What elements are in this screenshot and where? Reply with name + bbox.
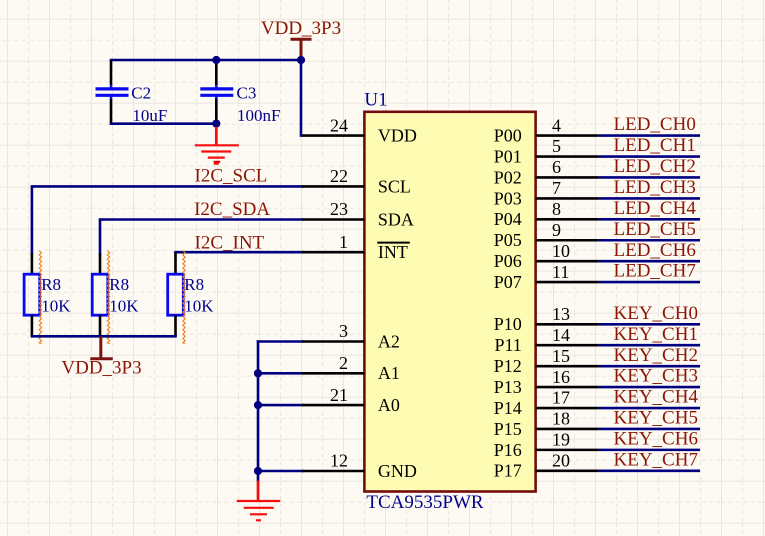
junction VDD branch (297, 56, 305, 64)
svg-text:LED_CH5: LED_CH5 (614, 219, 696, 240)
pin 15 P12 (right) (494, 346, 599, 376)
svg-text:10uF: 10uF (132, 106, 167, 125)
wire A1 (258, 372, 303, 375)
wire VDD drop (300, 60, 303, 136)
pin 3 A2 (left) (302, 321, 400, 351)
marker red dash above I2C_SCL (214, 161, 221, 163)
pin 1 INT (left) (302, 232, 410, 262)
svg-text:10K: 10K (109, 296, 139, 315)
resistor R8 (#3) (168, 251, 215, 344)
wire LED_CH6 (599, 260, 700, 263)
pin 20 P17 (right) (494, 451, 599, 481)
wire LED_CH7 (599, 281, 700, 284)
junction C3 bottom (212, 119, 220, 127)
pin 22 SCL (left) (302, 166, 411, 196)
svg-text:P07: P07 (494, 272, 522, 292)
svg-text:GND: GND (378, 461, 417, 481)
svg-text:P12: P12 (494, 356, 522, 376)
junction A1 (254, 369, 262, 377)
power symbol VDD_3P3 (top) (291, 39, 312, 60)
svg-text:P11: P11 (494, 335, 521, 355)
svg-text:11: 11 (552, 262, 569, 282)
svg-text:I2C_SDA: I2C_SDA (194, 199, 270, 220)
svg-text:I2C_INT: I2C_INT (195, 232, 265, 253)
svg-text:SCL: SCL (378, 176, 411, 196)
svg-text:KEY_CH5: KEY_CH5 (614, 408, 698, 429)
svg-text:22: 22 (330, 166, 348, 186)
svg-text:KEY_CH6: KEY_CH6 (614, 428, 698, 449)
svg-text:KEY_CH0: KEY_CH0 (614, 303, 698, 324)
wire cap bottom (111, 122, 216, 125)
svg-text:KEY_CH2: KEY_CH2 (614, 345, 698, 366)
svg-text:VDD_3P3: VDD_3P3 (261, 18, 341, 39)
svg-text:R8: R8 (109, 275, 129, 294)
svg-text:SDA: SDA (378, 209, 414, 229)
pin 21 A0 (left) (302, 385, 400, 415)
svg-text:6: 6 (552, 157, 561, 177)
svg-text:9: 9 (552, 220, 561, 240)
pin 5 P01 (right) (494, 136, 599, 166)
svg-text:VDD_3P3: VDD_3P3 (61, 358, 141, 379)
svg-text:C3: C3 (237, 84, 257, 103)
svg-text:LED_CH1: LED_CH1 (614, 135, 696, 156)
pin 7 P03 (right) (494, 178, 599, 208)
svg-text:KEY_CH4: KEY_CH4 (614, 387, 699, 408)
svg-text:18: 18 (552, 409, 570, 429)
svg-text:P06: P06 (494, 251, 522, 271)
svg-text:R8: R8 (41, 275, 61, 294)
svg-text:P05: P05 (494, 230, 522, 250)
pin 16 P13 (right) (494, 367, 599, 397)
svg-text:P13: P13 (494, 377, 522, 397)
svg-text:3: 3 (339, 321, 348, 341)
svg-text:P00: P00 (494, 126, 522, 146)
svg-text:10: 10 (552, 241, 570, 261)
svg-text:10K: 10K (41, 296, 71, 315)
wire KEY_CH3 (599, 386, 700, 389)
pin 23 SDA (left) (302, 199, 414, 229)
svg-text:5: 5 (552, 136, 561, 156)
svg-text:20: 20 (552, 451, 570, 471)
capacitor C3 (200, 60, 280, 125)
svg-text:KEY_CH7: KEY_CH7 (614, 449, 698, 470)
wire I2C_SCL (32, 186, 303, 253)
wire I2C_INT (176, 251, 303, 254)
wire LED_CH3 (599, 197, 700, 200)
svg-text:LED_CH0: LED_CH0 (614, 114, 696, 135)
svg-text:U1: U1 (364, 89, 387, 110)
IC U1 TCA9535PWR body (364, 112, 535, 492)
svg-text:15: 15 (552, 346, 570, 366)
wire GND pin12 (258, 470, 303, 473)
resistor R8 (#2) (92, 251, 139, 344)
svg-text:P10: P10 (494, 314, 522, 334)
svg-text:LED_CH7: LED_CH7 (614, 261, 696, 282)
wire LED_CH0 (599, 134, 700, 137)
svg-text:19: 19 (552, 430, 570, 450)
svg-text:C2: C2 (131, 84, 151, 103)
pin 9 P05 (right) (494, 220, 599, 250)
svg-text:A0: A0 (378, 395, 400, 415)
ground (under C3) (195, 127, 239, 164)
junction A0 (254, 401, 262, 409)
svg-text:23: 23 (330, 199, 348, 219)
wire LED_CH5 (599, 239, 700, 242)
wire A-column vertical (257, 342, 260, 481)
wire LED_CH2 (599, 176, 700, 179)
pin 24 VDD (left) (302, 115, 417, 145)
svg-text:KEY_CH3: KEY_CH3 (614, 366, 698, 387)
wire LED_CH1 (599, 155, 700, 158)
svg-text:24: 24 (330, 115, 348, 135)
pin 18 P15 (right) (494, 409, 599, 439)
svg-text:P16: P16 (494, 440, 522, 460)
wire resistor bottom rail (32, 335, 176, 338)
svg-text:P02: P02 (494, 167, 522, 187)
pin 2 A1 (left) (302, 353, 400, 383)
pin 14 P11 (right) (494, 325, 598, 355)
svg-text:LED_CH2: LED_CH2 (614, 156, 696, 177)
pin 19 P16 (right) (494, 430, 599, 460)
pin 8 P04 (right) (494, 199, 599, 229)
svg-text:P14: P14 (494, 398, 522, 418)
pin 6 P02 (right) (494, 157, 599, 187)
svg-text:LED_CH4: LED_CH4 (614, 198, 697, 219)
svg-text:21: 21 (330, 385, 348, 405)
junction C3 top (212, 56, 220, 64)
wire KEY_CH6 (599, 449, 700, 452)
svg-text:P04: P04 (494, 209, 522, 229)
svg-text:I2C_SCL: I2C_SCL (195, 166, 268, 187)
svg-text:R8: R8 (184, 275, 204, 294)
pin 10 P06 (right) (494, 241, 599, 271)
svg-text:P01: P01 (494, 146, 522, 166)
capacitor C2 (96, 60, 168, 125)
svg-text:13: 13 (552, 304, 570, 324)
junction GND (254, 467, 262, 475)
wire KEY_CH5 (599, 428, 700, 431)
svg-text:A2: A2 (378, 331, 400, 351)
pin 13 P10 (right) (494, 304, 599, 334)
wire A0 (258, 404, 303, 407)
svg-text:LED_CH6: LED_CH6 (614, 240, 696, 261)
svg-text:INT: INT (378, 242, 408, 262)
svg-text:8: 8 (552, 199, 561, 219)
svg-text:4: 4 (552, 115, 561, 135)
svg-text:14: 14 (552, 325, 570, 345)
wire KEY_CH0 (599, 323, 700, 326)
svg-text:VDD: VDD (378, 126, 417, 146)
wire A2 (258, 340, 303, 343)
svg-text:2: 2 (339, 353, 348, 373)
wire KEY_CH7 (599, 470, 700, 473)
wire KEY_CH1 (599, 344, 700, 347)
pin 11 P07 (right) (494, 262, 599, 292)
resistor R8 (#1) (24, 251, 71, 344)
pin 17 P14 (right) (494, 388, 599, 418)
svg-text:A1: A1 (378, 363, 400, 383)
svg-text:100nF: 100nF (237, 106, 280, 125)
svg-text:7: 7 (552, 178, 561, 198)
wire KEY_CH2 (599, 365, 700, 368)
svg-text:1: 1 (339, 232, 348, 252)
power symbol VDD_3P3 (bottom) (61, 336, 141, 378)
wire LED_CH4 (599, 218, 700, 221)
pin 12 GND (left) (302, 451, 417, 481)
svg-text:17: 17 (552, 388, 570, 408)
svg-text:16: 16 (552, 367, 570, 387)
svg-text:KEY_CH1: KEY_CH1 (614, 324, 698, 345)
svg-text:P15: P15 (494, 419, 522, 439)
wire I2C_SDA (100, 220, 303, 254)
svg-text:P17: P17 (494, 461, 522, 481)
svg-text:12: 12 (330, 451, 348, 471)
svg-text:LED_CH3: LED_CH3 (614, 177, 696, 198)
svg-text:10K: 10K (184, 296, 214, 315)
svg-text:P03: P03 (494, 188, 522, 208)
ground (bottom) (237, 481, 281, 521)
wire KEY_CH4 (599, 407, 700, 410)
svg-text:TCA9535PWR: TCA9535PWR (366, 492, 484, 513)
wire top rail (111, 59, 301, 62)
pin 4 P00 (right) (494, 115, 599, 145)
